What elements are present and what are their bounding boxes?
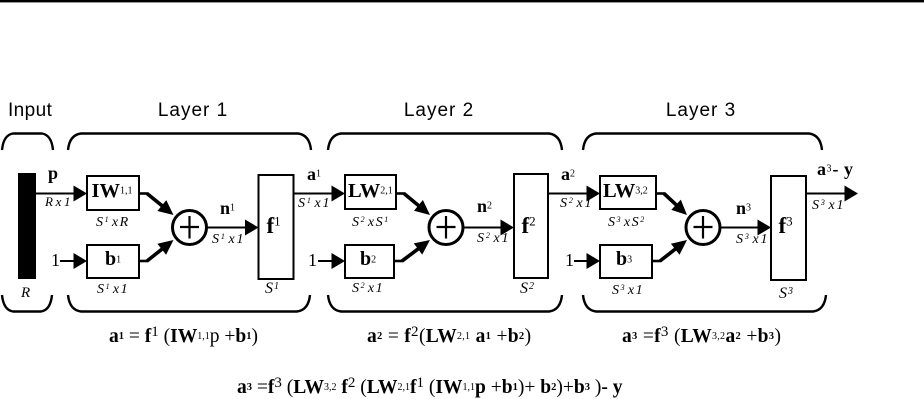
svg-text:S1 x1: S1 x1: [212, 232, 245, 247]
svg-text:S2 xS1: S2 xS1: [352, 215, 390, 230]
svg-text:R x 1: R x 1: [44, 194, 70, 209]
svg-text:S3 x1: S3 x1: [812, 198, 845, 213]
svg-text:1: 1: [565, 250, 574, 270]
svg-text:a3 =f3 (LW3,2 f2 (LW2,1 f1: a3 =f3 (LW3,2 f2 (LW2,1 f1 (IW1,1 p +b1 …: [237, 375, 623, 398]
svg-text:a1 = f1 (IW1,1 p +b1 ): a1 = f1 (IW1,1 p +b1 ): [109, 324, 258, 347]
svg-text:a3 =f3 (LW3,2 a2 +b3 ): a3 =f3 (LW3,2 a2 +b3 ): [622, 324, 781, 347]
svg-text:Layer 1: Layer 1: [158, 100, 228, 121]
svg-text:S3 x1: S3 x1: [736, 232, 769, 247]
svg-text:a3 - y: a3 - y: [817, 159, 854, 179]
svg-text:S3 xS2: S3 xS2: [608, 215, 646, 230]
svg-text:a2 = f2 (LW2,1 a1 +b2 ): a2 = f2 (LW2,1 a1 +b2 ): [367, 324, 531, 347]
svg-text:S2 x1: S2 x1: [560, 196, 593, 211]
svg-text:Input: Input: [8, 100, 53, 121]
svg-text:1: 1: [51, 250, 60, 270]
svg-text:Layer 3: Layer 3: [666, 100, 736, 121]
svg-text:S3 x1: S3 x1: [612, 283, 644, 298]
svg-text:S2 x1: S2 x1: [352, 281, 384, 296]
svg-text:S1 xR: S1 xR: [96, 215, 130, 230]
svg-text:p: p: [48, 163, 58, 183]
svg-text:Layer 2: Layer 2: [404, 100, 474, 121]
svg-text:S1 x1: S1 x1: [298, 196, 331, 211]
svg-text:R: R: [20, 285, 30, 301]
svg-text:1: 1: [308, 250, 317, 270]
svg-text:S1 x1: S1 x1: [97, 282, 129, 297]
svg-text:S2 x1: S2 x1: [477, 231, 510, 246]
